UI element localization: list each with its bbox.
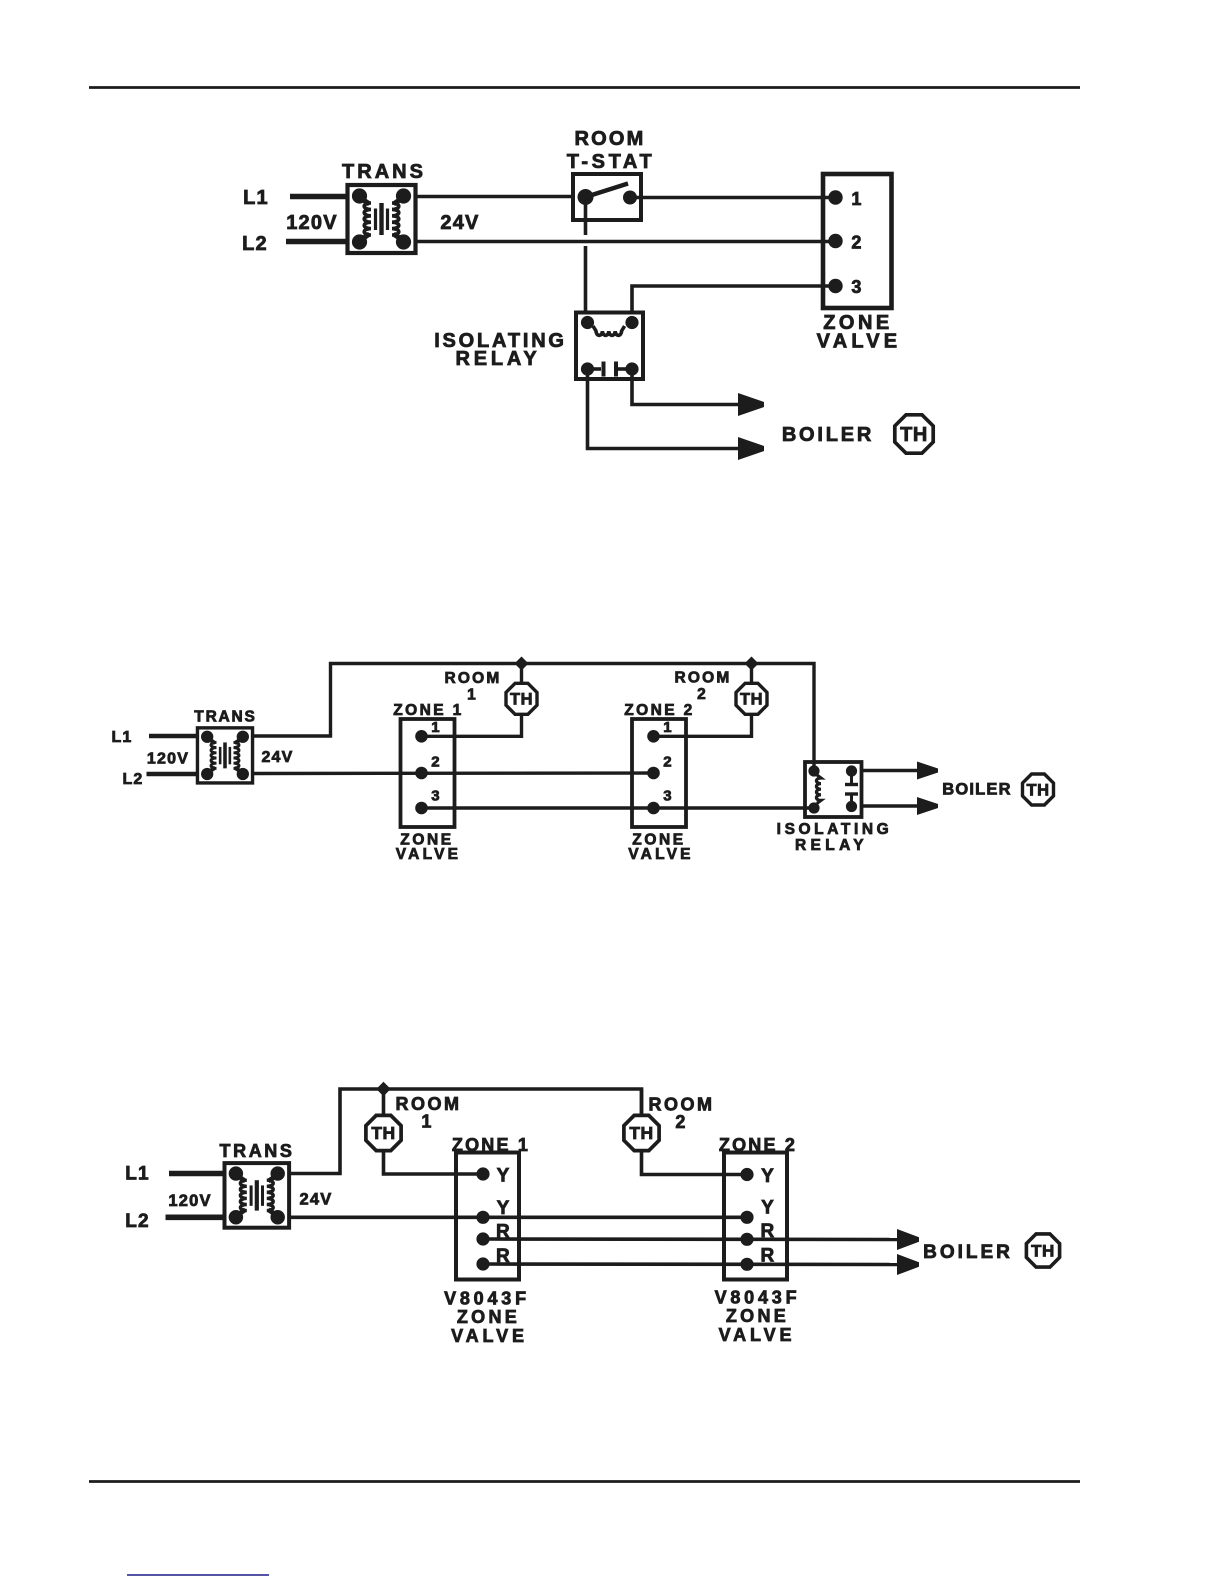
wire L1 lead (mid) xyxy=(149,734,198,739)
wire tap to TH room 2 (mid) xyxy=(750,664,753,684)
wire 24V hot bus (bot) xyxy=(288,1089,642,1174)
svg-text:TH: TH xyxy=(629,1123,653,1143)
wire t-stat to zone valve terminal 1 xyxy=(630,196,836,200)
wire L2 lead (bot) xyxy=(166,1215,226,1221)
svg-text:120V: 120V xyxy=(168,1192,211,1210)
thermostat TH room 1 (mid) xyxy=(506,683,537,714)
thermostat TH room 2 (bot) xyxy=(624,1115,659,1150)
svg-text:RELAY: RELAY xyxy=(795,837,868,854)
svg-text:ROOM: ROOM xyxy=(444,670,501,687)
svg-text:TRANS: TRANS xyxy=(342,161,426,183)
arrowhead boiler feed upper (mid) xyxy=(917,762,938,780)
transformer TRANS (top) xyxy=(348,185,416,253)
wire 24V hot bus (mid, to relay coil) xyxy=(252,664,814,770)
svg-text:L1: L1 xyxy=(111,729,132,746)
svg-text:L2: L2 xyxy=(122,771,143,788)
wire relay common to boiler (lower) xyxy=(588,374,740,449)
svg-text:ZONE 1: ZONE 1 xyxy=(393,702,463,719)
svg-text:3: 3 xyxy=(663,788,673,805)
wire relay to boiler upper (mid) xyxy=(862,769,919,772)
svg-text:L2: L2 xyxy=(125,1211,150,1232)
top rule xyxy=(89,86,1080,89)
svg-text:Y: Y xyxy=(761,1166,775,1187)
isolating relay (top) xyxy=(576,313,643,380)
svg-text:ROOM: ROOM xyxy=(674,670,731,687)
svg-text:ISOLATING: ISOLATING xyxy=(777,821,893,838)
arrowhead boiler feed (upper, top) xyxy=(738,393,764,416)
wire L2 lead (mid) xyxy=(147,772,199,777)
svg-text:24V: 24V xyxy=(300,1191,333,1209)
boiler TH symbol (mid) xyxy=(1023,774,1054,805)
svg-text:VALVE: VALVE xyxy=(628,846,693,863)
wire 24V hot to t-stat xyxy=(416,195,574,199)
svg-text:TRANS: TRANS xyxy=(194,709,256,726)
junction room 1 tap (bot) xyxy=(376,1082,390,1096)
wire relay NO contact to boiler (upper) xyxy=(632,374,739,405)
svg-text:BOILER: BOILER xyxy=(923,1242,1013,1263)
footnote underline (link rule) xyxy=(127,1574,269,1576)
svg-text:1: 1 xyxy=(431,719,441,736)
svg-text:2: 2 xyxy=(431,754,441,771)
svg-text:TRANS: TRANS xyxy=(220,1141,295,1161)
thermostat TH room 2 (mid) xyxy=(736,683,767,714)
zone valve 2 (mid) xyxy=(632,719,686,827)
zone valve 1 (mid) xyxy=(401,719,455,827)
thermostat TH room 1 (bot) xyxy=(366,1115,401,1150)
svg-text:Y: Y xyxy=(761,1198,775,1219)
wire R bus lower to boiler (bot) xyxy=(483,1262,897,1266)
svg-text:T-STAT: T-STAT xyxy=(567,151,656,173)
wire L1 lead (top) xyxy=(290,194,348,200)
arrowhead boiler feed lower (mid) xyxy=(917,797,938,815)
wire R bus upper to boiler (bot) xyxy=(483,1237,897,1241)
svg-text:R: R xyxy=(761,1221,776,1242)
wire 24V common zone1/zone2 terminal 2 xyxy=(252,771,654,775)
svg-text:V8043F: V8043F xyxy=(715,1288,801,1308)
svg-text:120V: 120V xyxy=(286,212,338,234)
transformer TRANS (bot) xyxy=(224,1163,289,1228)
svg-text:BOILER: BOILER xyxy=(782,424,874,446)
svg-text:2: 2 xyxy=(675,1112,686,1132)
wire 24V common zone1/zone2 Y xyxy=(288,1216,748,1220)
svg-text:RELAY: RELAY xyxy=(456,348,541,370)
svg-text:1: 1 xyxy=(467,687,477,704)
svg-text:L2: L2 xyxy=(242,233,268,255)
svg-text:VALVE: VALVE xyxy=(719,1325,796,1345)
svg-text:1: 1 xyxy=(851,189,862,209)
svg-text:Y: Y xyxy=(497,1166,511,1187)
svg-text:TH: TH xyxy=(900,424,928,446)
arrowhead boiler feed upper (bot) xyxy=(897,1229,919,1250)
wire t-stat to relay coil (upper) xyxy=(584,203,588,235)
boiler TH symbol (top) xyxy=(895,415,933,453)
svg-text:V8043F: V8043F xyxy=(444,1289,530,1309)
svg-text:TH: TH xyxy=(1027,781,1050,799)
wire TH room1 to zone1 Y xyxy=(384,1152,485,1174)
svg-text:1: 1 xyxy=(421,1112,432,1132)
wire t-stat to relay coil (lower, crosses L2) xyxy=(584,246,588,314)
V8043F zone valve 2 (bot) xyxy=(724,1153,787,1280)
svg-text:24V: 24V xyxy=(440,212,479,234)
svg-text:L1: L1 xyxy=(243,187,269,209)
svg-text:ZONE: ZONE xyxy=(726,1306,789,1326)
thermostat switch ROOM T-STAT xyxy=(573,174,641,220)
svg-text:VALVE: VALVE xyxy=(451,1326,528,1346)
svg-text:TH: TH xyxy=(740,691,763,709)
junction room 2 tap (mid) xyxy=(745,657,759,671)
svg-text:120V: 120V xyxy=(147,751,189,768)
arrowhead boiler feed (lower, top) xyxy=(738,437,764,460)
svg-text:L1: L1 xyxy=(125,1164,150,1185)
transformer TRANS (mid) xyxy=(197,728,252,783)
svg-text:3: 3 xyxy=(851,277,862,297)
wire TH room1 to zone1 terminal 1 xyxy=(421,715,522,737)
svg-text:BOILER: BOILER xyxy=(942,781,1012,799)
svg-text:ZONE 2: ZONE 2 xyxy=(624,702,694,719)
wire TH room2 to zone2 Y xyxy=(642,1152,749,1175)
wire zone valve terminal 3 to relay xyxy=(632,286,836,314)
zone valve (top) xyxy=(823,174,892,308)
svg-text:3: 3 xyxy=(431,788,441,805)
svg-text:TH: TH xyxy=(371,1123,395,1143)
wire bus drop to TH room2 (bot) xyxy=(640,1089,644,1115)
wire L1 lead (bot) xyxy=(169,1171,225,1177)
svg-text:ZONE: ZONE xyxy=(457,1307,520,1327)
isolating relay (mid) xyxy=(805,762,862,817)
svg-text:VALVE: VALVE xyxy=(396,846,461,863)
wire 24V common to zone valve terminal 2 xyxy=(416,240,837,244)
svg-text:R: R xyxy=(761,1246,776,1267)
boiler TH symbol (bot) xyxy=(1026,1234,1059,1267)
svg-text:2: 2 xyxy=(697,686,707,703)
arrowhead boiler feed lower (bot) xyxy=(897,1254,919,1275)
bottom rule xyxy=(89,1480,1080,1483)
junction room 1 tap (mid) xyxy=(515,657,529,671)
svg-text:ROOM: ROOM xyxy=(574,128,645,150)
wire relay to boiler lower (mid) xyxy=(862,804,919,807)
svg-text:2: 2 xyxy=(663,754,673,771)
wire TH room2 to zone2 terminal 1 xyxy=(653,715,752,737)
svg-text:1: 1 xyxy=(663,719,673,736)
svg-text:VALVE: VALVE xyxy=(817,331,902,353)
svg-text:TH: TH xyxy=(1031,1242,1055,1261)
svg-text:2: 2 xyxy=(851,233,862,253)
wire terminal 3 bus to relay coil low xyxy=(422,806,816,809)
wire tap to TH room1 (bot) xyxy=(382,1089,386,1115)
wire L2 lead (top) xyxy=(286,239,348,245)
svg-text:24V: 24V xyxy=(261,749,293,766)
wire tap to TH room 1 (mid) xyxy=(520,664,523,684)
svg-text:TH: TH xyxy=(510,691,533,709)
V8043F zone valve 1 (bot) xyxy=(456,1153,519,1280)
